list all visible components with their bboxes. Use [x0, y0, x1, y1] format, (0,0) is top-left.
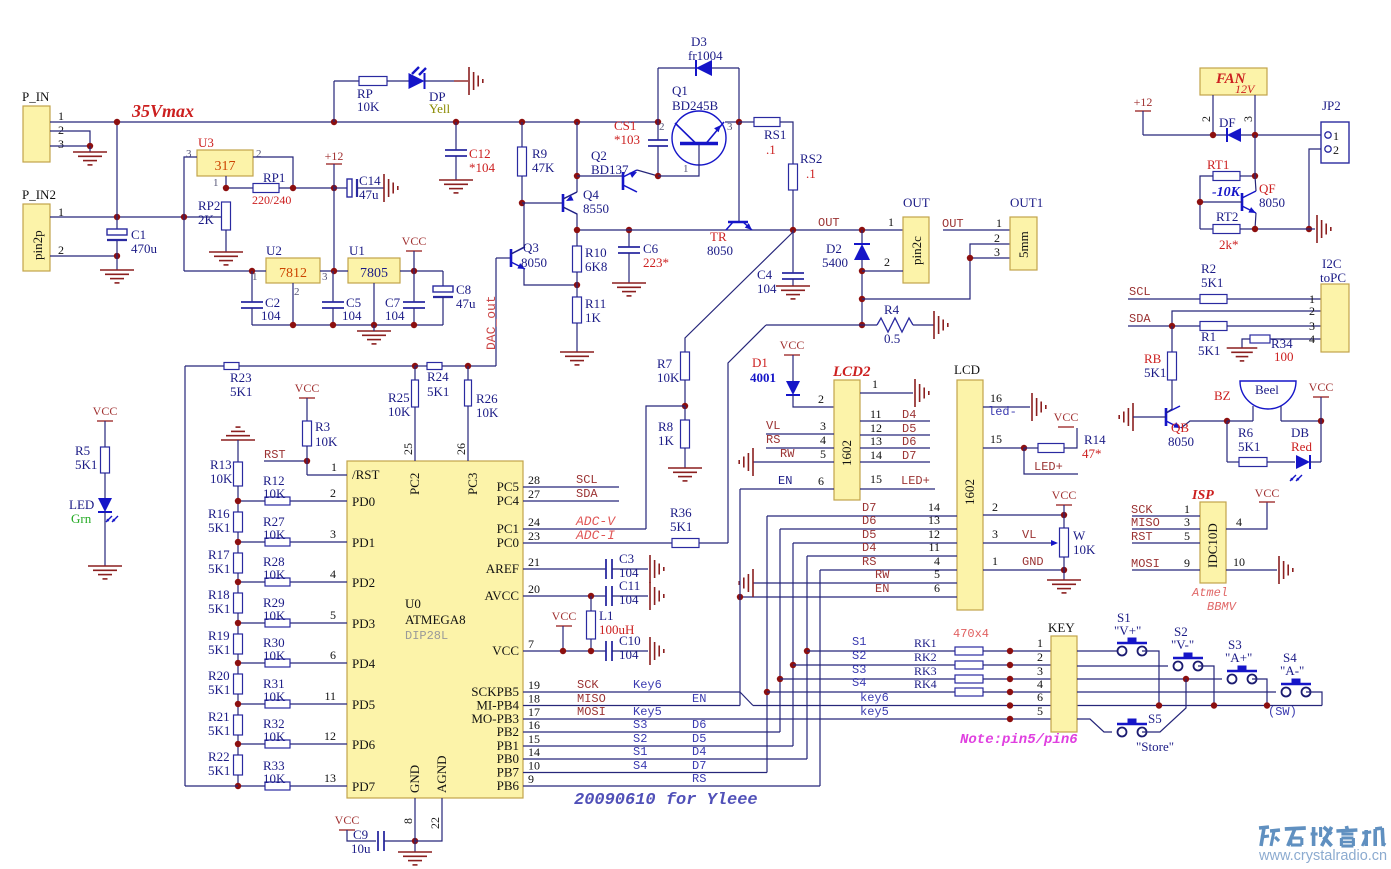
- svg-text:15: 15: [990, 432, 1002, 446]
- svg-text:47K: 47K: [532, 160, 555, 175]
- svg-text:7805: 7805: [360, 266, 388, 281]
- svg-text:OUT: OUT: [903, 195, 930, 210]
- svg-text:SDA: SDA: [1129, 312, 1151, 326]
- svg-text:1K: 1K: [658, 433, 675, 448]
- svg-text:led-: led-: [988, 405, 1017, 419]
- svg-text:pin2c: pin2c: [909, 236, 924, 265]
- svg-text:10K: 10K: [657, 370, 680, 385]
- svg-text:LCD2: LCD2: [832, 364, 871, 380]
- svg-text:"A+": "A+": [1225, 650, 1252, 665]
- svg-text:PC1: PC1: [497, 521, 519, 536]
- svg-text:KEY: KEY: [1048, 620, 1075, 635]
- svg-text:5K1: 5K1: [670, 519, 692, 534]
- svg-text:"Store": "Store": [1136, 739, 1174, 754]
- svg-text:TR: TR: [710, 229, 727, 244]
- svg-text:RT2: RT2: [1216, 209, 1238, 224]
- svg-text:VCC: VCC: [552, 609, 577, 623]
- svg-text:+12: +12: [325, 149, 344, 163]
- svg-text:5K1: 5K1: [208, 682, 230, 697]
- svg-text:8: 8: [401, 818, 415, 824]
- svg-text:I2C: I2C: [1322, 256, 1342, 271]
- svg-text:VCC: VCC: [492, 643, 519, 658]
- svg-text:3: 3: [992, 527, 998, 541]
- svg-text:Key5: Key5: [633, 705, 662, 719]
- svg-text:RK2: RK2: [914, 650, 937, 664]
- svg-text:2K: 2K: [198, 212, 215, 227]
- svg-text:PC3: PC3: [465, 473, 480, 495]
- svg-text:5: 5: [1184, 529, 1190, 543]
- svg-text:RST: RST: [1131, 530, 1153, 544]
- svg-text:(SW): (SW): [1268, 705, 1297, 719]
- svg-text:R22: R22: [208, 749, 230, 764]
- svg-text:10: 10: [1233, 555, 1245, 569]
- svg-text:6: 6: [330, 648, 336, 662]
- svg-text:.1: .1: [766, 142, 776, 157]
- svg-text:1: 1: [1184, 502, 1190, 516]
- svg-text:RS2: RS2: [800, 151, 822, 166]
- svg-text:10K: 10K: [1073, 542, 1096, 557]
- svg-text:www.crystalradio.cn: www.crystalradio.cn: [1258, 848, 1387, 864]
- svg-text:EN: EN: [875, 582, 889, 596]
- svg-text:DB: DB: [1291, 425, 1309, 440]
- svg-text:RW: RW: [780, 447, 795, 461]
- svg-text:5K1: 5K1: [1198, 343, 1220, 358]
- svg-text:10u: 10u: [351, 841, 371, 856]
- svg-text:13: 13: [928, 513, 940, 527]
- svg-text:16: 16: [528, 718, 540, 732]
- svg-text:ATMEGA8: ATMEGA8: [405, 612, 466, 627]
- svg-text:R20: R20: [208, 668, 230, 683]
- svg-text:2: 2: [994, 231, 1000, 245]
- svg-text:26: 26: [454, 443, 468, 455]
- svg-text:PD5: PD5: [352, 697, 375, 712]
- svg-text:S1: S1: [633, 745, 647, 759]
- svg-text:D6: D6: [902, 435, 916, 449]
- svg-text:S4: S4: [633, 759, 647, 773]
- svg-text:2: 2: [1037, 650, 1043, 664]
- svg-text:1602: 1602: [839, 440, 854, 466]
- svg-text:470u: 470u: [131, 241, 158, 256]
- svg-text:ADC-V: ADC-V: [575, 514, 616, 529]
- svg-text:3: 3: [1241, 116, 1255, 122]
- svg-text:5: 5: [1037, 704, 1043, 718]
- svg-text:S3: S3: [852, 663, 866, 677]
- svg-text:QF: QF: [1259, 181, 1276, 196]
- svg-text:1: 1: [996, 216, 1002, 230]
- svg-text:key5: key5: [860, 705, 889, 719]
- svg-text:R7: R7: [657, 356, 673, 371]
- svg-text:9: 9: [1184, 556, 1190, 570]
- svg-text:LCD: LCD: [954, 362, 980, 377]
- svg-text:R14: R14: [1084, 432, 1106, 447]
- svg-text:3: 3: [186, 148, 192, 160]
- svg-text:5mm: 5mm: [1016, 231, 1031, 258]
- svg-text:1: 1: [58, 109, 64, 123]
- svg-text:10K: 10K: [263, 608, 286, 623]
- svg-text:D6: D6: [862, 514, 876, 528]
- svg-text:+12: +12: [1134, 95, 1153, 109]
- svg-text:SCL: SCL: [576, 473, 598, 487]
- svg-text:10K: 10K: [263, 648, 286, 663]
- svg-text:EN: EN: [692, 692, 706, 706]
- svg-text:EN: EN: [778, 474, 792, 488]
- svg-text:Q2: Q2: [591, 148, 607, 163]
- svg-text:OUT1: OUT1: [1010, 195, 1043, 210]
- svg-text:5K1: 5K1: [208, 601, 230, 616]
- svg-text:5K1: 5K1: [75, 457, 97, 472]
- svg-text:0.5: 0.5: [884, 331, 900, 346]
- svg-text:PD1: PD1: [352, 535, 375, 550]
- svg-text:4001: 4001: [750, 370, 776, 385]
- svg-text:1K: 1K: [585, 310, 602, 325]
- svg-text:104: 104: [261, 308, 281, 323]
- svg-text:5: 5: [934, 567, 940, 581]
- svg-text:2: 2: [58, 243, 64, 257]
- svg-text:47u: 47u: [456, 296, 476, 311]
- svg-text:Yell: Yell: [429, 101, 450, 116]
- svg-text:RK4: RK4: [914, 677, 937, 691]
- svg-text:RK3: RK3: [914, 664, 937, 678]
- svg-text:BD137: BD137: [591, 162, 629, 177]
- svg-text:25: 25: [401, 443, 415, 455]
- svg-text:C6: C6: [643, 241, 659, 256]
- svg-text:2: 2: [256, 148, 262, 160]
- svg-text:S2: S2: [852, 649, 866, 663]
- svg-text:S1: S1: [852, 635, 866, 649]
- svg-text:17: 17: [528, 705, 540, 719]
- svg-text:R3: R3: [315, 419, 330, 434]
- svg-text:D5: D5: [902, 422, 916, 436]
- svg-text:Atmel: Atmel: [1191, 586, 1228, 600]
- svg-text:D4: D4: [862, 541, 876, 555]
- svg-text:R13: R13: [210, 457, 232, 472]
- svg-text:D1: D1: [752, 355, 768, 370]
- svg-text:-10K: -10K: [1212, 185, 1242, 200]
- svg-text:R4: R4: [884, 302, 900, 317]
- svg-text:C14: C14: [359, 173, 381, 188]
- svg-text:5K1: 5K1: [1201, 275, 1223, 290]
- svg-text:2: 2: [1199, 116, 1213, 122]
- svg-text:R21: R21: [208, 709, 230, 724]
- svg-text:8050: 8050: [1259, 195, 1285, 210]
- svg-text:R16: R16: [208, 506, 230, 521]
- svg-text:GND: GND: [1022, 555, 1044, 569]
- svg-text:4: 4: [1236, 515, 1242, 529]
- svg-text:1: 1: [683, 163, 689, 175]
- svg-text:MOSI: MOSI: [577, 705, 606, 719]
- svg-text:24: 24: [528, 515, 540, 529]
- svg-text:RW: RW: [875, 568, 890, 582]
- svg-text:2: 2: [659, 121, 665, 133]
- svg-text:12: 12: [870, 421, 882, 435]
- svg-text:1: 1: [331, 460, 337, 474]
- svg-text:VCC: VCC: [402, 234, 427, 248]
- svg-text:1: 1: [1037, 636, 1043, 650]
- svg-text:104: 104: [757, 281, 777, 296]
- svg-text:20: 20: [528, 582, 540, 596]
- svg-text:6: 6: [1037, 690, 1043, 704]
- svg-text:RS: RS: [692, 772, 706, 786]
- svg-text:11: 11: [324, 689, 336, 703]
- svg-text:C12: C12: [469, 146, 491, 161]
- svg-text:9: 9: [528, 772, 534, 786]
- svg-text:47u: 47u: [359, 187, 379, 202]
- svg-text:BD245B: BD245B: [672, 98, 719, 113]
- svg-text:8050: 8050: [1168, 434, 1194, 449]
- svg-text:10K: 10K: [315, 434, 338, 449]
- svg-text:SCK: SCK: [577, 678, 599, 692]
- svg-text:VCC: VCC: [1054, 410, 1079, 424]
- svg-text:8050: 8050: [707, 243, 733, 258]
- svg-text:"V+": "V+": [1114, 623, 1141, 638]
- svg-text:100: 100: [1274, 349, 1294, 364]
- svg-text:R19: R19: [208, 628, 230, 643]
- svg-text:4: 4: [1309, 332, 1315, 346]
- svg-text:RP1: RP1: [263, 170, 285, 185]
- svg-text:16: 16: [990, 391, 1002, 405]
- svg-text:SCL: SCL: [1129, 285, 1151, 299]
- svg-text:ISP: ISP: [1191, 488, 1214, 503]
- svg-text:PD6: PD6: [352, 737, 376, 752]
- svg-text:MOSI: MOSI: [1131, 557, 1160, 571]
- svg-text:VCC: VCC: [335, 813, 360, 827]
- svg-text:VCC: VCC: [93, 404, 118, 418]
- svg-text:PD3: PD3: [352, 616, 375, 631]
- svg-text:/RST: /RST: [352, 467, 380, 482]
- svg-text:S2: S2: [633, 732, 647, 746]
- svg-text:LED+: LED+: [901, 474, 930, 488]
- svg-text:Q3: Q3: [523, 240, 539, 255]
- svg-text:6: 6: [818, 474, 824, 488]
- svg-text:S5: S5: [1148, 711, 1162, 726]
- svg-text:1602: 1602: [962, 479, 977, 505]
- svg-text:10K: 10K: [263, 771, 286, 786]
- svg-text:LED+: LED+: [1034, 460, 1063, 474]
- svg-text:D2: D2: [826, 241, 842, 256]
- svg-text:10K: 10K: [263, 729, 286, 744]
- svg-text:D4: D4: [902, 408, 916, 422]
- svg-text:11: 11: [870, 407, 882, 421]
- svg-text:R8: R8: [658, 419, 673, 434]
- svg-text:1: 1: [992, 554, 998, 568]
- svg-text:D5: D5: [862, 528, 876, 542]
- svg-text:R9: R9: [532, 146, 547, 161]
- svg-text:28: 28: [528, 473, 540, 487]
- svg-text:1: 1: [213, 177, 219, 189]
- svg-text:fr1004: fr1004: [688, 48, 723, 63]
- svg-text:DF: DF: [1219, 115, 1236, 130]
- svg-text:5: 5: [820, 447, 826, 461]
- svg-text:8050: 8050: [521, 255, 547, 270]
- svg-text:Key6: Key6: [633, 678, 662, 692]
- svg-text:10K: 10K: [388, 404, 411, 419]
- svg-text:220/240: 220/240: [252, 193, 291, 207]
- svg-text:12: 12: [324, 729, 336, 743]
- svg-text:IDC10D: IDC10D: [1205, 523, 1220, 568]
- svg-text:2: 2: [818, 392, 824, 406]
- svg-text:C3: C3: [619, 551, 634, 566]
- svg-text:R23: R23: [230, 370, 252, 385]
- svg-text:2: 2: [1333, 143, 1339, 157]
- svg-text:14: 14: [928, 500, 940, 514]
- svg-text:"V-": "V-": [1171, 637, 1194, 652]
- svg-text:1: 1: [888, 215, 894, 229]
- svg-text:OUT: OUT: [942, 217, 964, 231]
- svg-text:6K8: 6K8: [585, 259, 607, 274]
- svg-text:U2: U2: [266, 243, 282, 258]
- svg-text:AVCC: AVCC: [485, 588, 519, 603]
- svg-text:4: 4: [820, 433, 826, 447]
- svg-text:3: 3: [727, 121, 733, 133]
- svg-text:ADC-I: ADC-I: [575, 528, 615, 543]
- svg-text:R6: R6: [1238, 425, 1254, 440]
- svg-text:VCC: VCC: [295, 381, 320, 395]
- svg-text:19: 19: [528, 678, 540, 692]
- svg-text:3: 3: [1309, 319, 1315, 333]
- svg-text:PB6: PB6: [497, 778, 520, 793]
- svg-text:5: 5: [330, 608, 336, 622]
- svg-text:5K1: 5K1: [208, 642, 230, 657]
- svg-text:3: 3: [330, 527, 336, 541]
- svg-text:VCC: VCC: [1309, 380, 1334, 394]
- svg-text:OUT: OUT: [818, 216, 840, 230]
- svg-text:D7: D7: [692, 759, 706, 773]
- svg-text:317: 317: [215, 159, 236, 174]
- svg-text:D6: D6: [692, 718, 706, 732]
- svg-text:2k*: 2k*: [1219, 237, 1239, 252]
- svg-text:5K1: 5K1: [208, 723, 230, 738]
- svg-text:47*: 47*: [1082, 446, 1102, 461]
- svg-text:D7: D7: [862, 501, 876, 515]
- svg-text:11: 11: [928, 540, 940, 554]
- svg-text:100uH: 100uH: [599, 622, 634, 637]
- svg-text:Note:pin5/pin6: Note:pin5/pin6: [960, 732, 1078, 748]
- svg-text:U1: U1: [349, 243, 365, 258]
- svg-text:P_IN: P_IN: [22, 89, 50, 104]
- svg-text:13: 13: [870, 434, 882, 448]
- svg-text:PD4: PD4: [352, 656, 376, 671]
- svg-text:10: 10: [528, 759, 540, 773]
- svg-text:2: 2: [58, 123, 64, 137]
- svg-text:CS1: CS1: [614, 118, 636, 133]
- svg-text:5K1: 5K1: [230, 384, 252, 399]
- svg-text:R25: R25: [388, 390, 410, 405]
- svg-text:R1: R1: [1201, 329, 1216, 344]
- svg-text:AREF: AREF: [486, 561, 519, 576]
- svg-text:RST: RST: [264, 448, 286, 462]
- svg-text:"A-": "A-": [1280, 663, 1304, 678]
- svg-text:5K1: 5K1: [208, 561, 230, 576]
- svg-text:5400: 5400: [822, 255, 848, 270]
- svg-text:GND: GND: [407, 765, 422, 793]
- svg-text:10K: 10K: [263, 689, 286, 704]
- svg-text:7812: 7812: [279, 266, 307, 281]
- svg-text:key6: key6: [860, 691, 889, 705]
- svg-text:10K: 10K: [263, 567, 286, 582]
- svg-text:14: 14: [870, 448, 882, 462]
- svg-text:VL: VL: [1022, 528, 1036, 542]
- svg-text:5K1: 5K1: [1238, 439, 1260, 454]
- svg-text:C8: C8: [456, 282, 471, 297]
- svg-text:5K1: 5K1: [427, 384, 449, 399]
- svg-text:23: 23: [528, 529, 540, 543]
- svg-text:BZ: BZ: [1214, 388, 1231, 403]
- svg-text:3: 3: [322, 271, 328, 283]
- svg-text:JP2: JP2: [1322, 98, 1341, 113]
- svg-text:MISO: MISO: [1131, 516, 1160, 530]
- svg-text:Red: Red: [1291, 439, 1312, 454]
- svg-text:3: 3: [994, 245, 1000, 259]
- svg-text:1: 1: [872, 377, 878, 391]
- svg-text:RS: RS: [862, 555, 876, 569]
- svg-text:15: 15: [528, 732, 540, 746]
- svg-text:12V: 12V: [1235, 82, 1256, 96]
- svg-text:5K1: 5K1: [1144, 365, 1166, 380]
- svg-text:10K: 10K: [476, 405, 499, 420]
- svg-text:DIP28L: DIP28L: [405, 629, 448, 643]
- svg-text:R10: R10: [585, 245, 607, 260]
- svg-text:D7: D7: [902, 449, 916, 463]
- svg-text:RP2: RP2: [198, 198, 220, 213]
- svg-text:R18: R18: [208, 587, 230, 602]
- svg-text:VL: VL: [766, 419, 780, 433]
- svg-text:C1: C1: [131, 227, 146, 242]
- svg-text:8550: 8550: [583, 201, 609, 216]
- svg-text:PC4: PC4: [497, 493, 520, 508]
- svg-text:2: 2: [884, 255, 890, 269]
- svg-text:SDA: SDA: [576, 487, 598, 501]
- svg-text:3: 3: [820, 419, 826, 433]
- svg-text:toPC: toPC: [1320, 270, 1346, 285]
- svg-text:35Vmax: 35Vmax: [131, 101, 194, 121]
- svg-text:27: 27: [528, 487, 540, 501]
- svg-text:PD2: PD2: [352, 575, 375, 590]
- svg-text:R2: R2: [1201, 261, 1216, 276]
- svg-text:*103: *103: [614, 132, 640, 147]
- svg-text:PC0: PC0: [497, 535, 519, 550]
- svg-text:*104: *104: [469, 160, 496, 175]
- svg-text:C9: C9: [353, 827, 368, 842]
- svg-text:PD7: PD7: [352, 779, 376, 794]
- svg-text:10K: 10K: [263, 527, 286, 542]
- svg-text:18: 18: [528, 692, 540, 706]
- svg-text:PB2: PB2: [497, 724, 519, 739]
- svg-text:10K: 10K: [357, 99, 380, 114]
- svg-text:104: 104: [385, 308, 405, 323]
- svg-text:12: 12: [928, 527, 940, 541]
- svg-text:RK1: RK1: [914, 636, 937, 650]
- svg-text:DAC_out: DAC_out: [484, 295, 499, 350]
- svg-text:22: 22: [428, 817, 442, 829]
- svg-text:AGND: AGND: [434, 755, 449, 793]
- svg-text:S4: S4: [852, 676, 866, 690]
- svg-text:PC2: PC2: [407, 473, 422, 495]
- svg-text:QB: QB: [1171, 420, 1189, 435]
- svg-text:5K1: 5K1: [208, 763, 230, 778]
- svg-text:R36: R36: [670, 505, 692, 520]
- svg-text:Q1: Q1: [672, 83, 688, 98]
- svg-text:7: 7: [528, 637, 534, 651]
- svg-text:470x4: 470x4: [953, 627, 989, 641]
- svg-text:R26: R26: [476, 391, 498, 406]
- svg-text:2: 2: [992, 500, 998, 514]
- svg-text:15: 15: [870, 472, 882, 486]
- svg-text:LED: LED: [69, 497, 94, 512]
- svg-text:R11: R11: [585, 296, 606, 311]
- svg-text:D5: D5: [692, 732, 706, 746]
- svg-text:PC5: PC5: [497, 479, 519, 494]
- svg-text:4: 4: [934, 554, 940, 568]
